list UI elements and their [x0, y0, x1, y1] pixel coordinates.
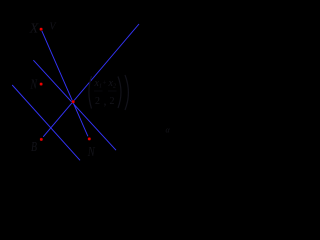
formula fraction bar left [94, 90, 103, 92]
node P4 bottom-left point [40, 138, 43, 141]
wire: line D from (12,85) to (80,160) [12, 85, 80, 160]
svg-text:+: + [103, 79, 107, 87]
formula fraction bar right [108, 90, 117, 92]
node P5 bottom-middle point [88, 137, 91, 140]
wire: line B from point X (41,29) to point (88,137) [42, 31, 88, 137]
svg-text:2: 2 [110, 96, 115, 107]
formula close paren 2 [125, 75, 128, 110]
svg-text:N: N [87, 145, 95, 160]
circuit-free geometry diagram: midpoint formula figure on black background [0, 0, 201, 174]
wire: line A from (139,24) to point B4 (43,137) [43, 24, 139, 137]
svg-text:B: B [31, 140, 37, 155]
svg-text:X: X [29, 21, 39, 36]
node P3 center intersection point [72, 100, 75, 103]
svg-text:N: N [30, 78, 38, 93]
node P2 mid-left point [40, 83, 43, 86]
formula close paren 1 [118, 77, 121, 109]
svg-text:,: , [104, 94, 107, 108]
midpoint formula label: big open paren [89, 76, 92, 109]
wire: line C from (33,60) to (116,150) [33, 60, 116, 150]
node P1 top point [40, 28, 43, 31]
svg-text:2: 2 [95, 96, 100, 107]
